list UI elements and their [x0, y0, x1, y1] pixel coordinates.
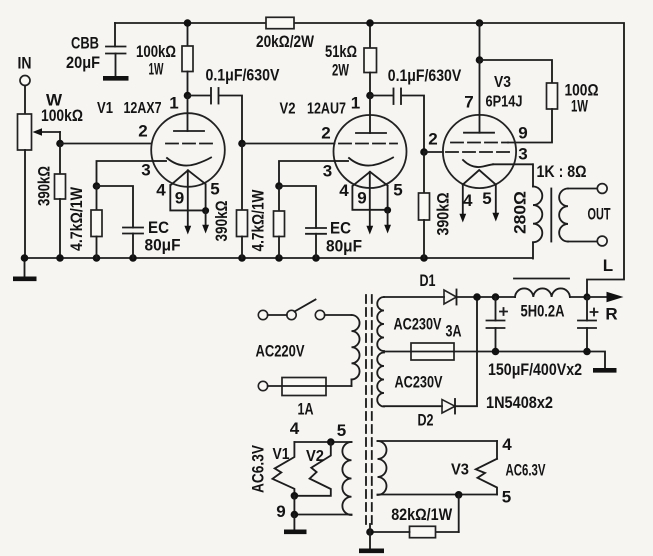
V2 heater [353, 172, 388, 186]
node heater pin5 tap [327, 438, 335, 446]
svg-text:V1: V1 [273, 446, 290, 463]
svg-text:D1: D1 [420, 271, 436, 290]
resistor 4.7kOhm/1W (V2 cathode) [249, 186, 285, 258]
svg-text:EC: EC [148, 218, 169, 237]
node V1 pin5 junction [202, 207, 209, 214]
svg-text:AC6.3V: AC6.3V [506, 461, 546, 480]
ground (heater) [284, 515, 307, 532]
capacitor EC 80uF (V2 cathode) [279, 186, 362, 258]
vacuum tube V2 12AU7 [280, 101, 407, 189]
svg-text:5: 5 [337, 421, 346, 440]
inductor choke 5H0.2A [515, 288, 587, 320]
V3 heater lead arrow (pin 5) [492, 185, 499, 222]
pin labels V3 [428, 93, 527, 211]
svg-text:6P14J: 6P14J [486, 94, 523, 111]
capacitor 0.1uF/630V (V1-V2 coupling) [188, 66, 281, 144]
node rectifier output [473, 293, 499, 301]
pin labels V1 [138, 94, 219, 208]
svg-text:1K : 8Ω: 1K : 8Ω [537, 162, 587, 181]
transformer T1 heater winding V1 V2 (AC6.3V) [294, 442, 351, 515]
svg-text:280Ω: 280Ω [511, 191, 530, 234]
label AC220V [256, 342, 305, 361]
node V1 cathode junction [93, 182, 101, 190]
V1 plate [174, 96, 204, 132]
resistor 390kOhm (input) [35, 144, 66, 259]
resistor 4.7kOhm/1W (V1 cathode) [67, 186, 102, 258]
capacitor 150uF right [578, 297, 598, 352]
svg-text:390kΩ: 390kΩ [35, 166, 54, 206]
heater V1 (zigzag) [273, 442, 295, 496]
svg-text:CBB: CBB [71, 34, 99, 53]
transformer T1 secondary AC230V upper [377, 297, 442, 351]
svg-text:100kΩ: 100kΩ [136, 42, 176, 61]
fuse 3A (center tap) [384, 322, 496, 361]
svg-text:3: 3 [323, 162, 332, 181]
svg-text:390kΩ: 390kΩ [434, 193, 453, 236]
svg-text:5H0.2A: 5H0.2A [521, 302, 565, 321]
svg-text:4: 4 [156, 181, 166, 200]
labels heater V3 [451, 435, 546, 507]
resistor 51kOhm 2W (V2 plate) [325, 23, 377, 96]
node heater bottom junction [291, 492, 299, 500]
label 1K:8Ohm [537, 162, 587, 181]
svg-text:4: 4 [339, 181, 349, 200]
svg-text:3: 3 [141, 161, 150, 180]
wire ground rail [25, 257, 533, 259]
node V2 cathode junction [275, 182, 283, 190]
V2 heater lead arrow (pin 5) [384, 210, 391, 233]
wire B+ top rail [115, 23, 624, 297]
svg-text:5: 5 [393, 181, 402, 200]
svg-text:IN: IN [18, 54, 32, 73]
svg-text:5: 5 [502, 488, 511, 507]
label 150uF/400Vx2 [488, 360, 582, 379]
wire to V1 grid [60, 143, 152, 145]
wire heater V3 bottom [378, 494, 498, 496]
node heater V3 junction [455, 491, 463, 499]
svg-text:D2: D2 [418, 411, 434, 430]
svg-text:12AX7: 12AX7 [124, 100, 162, 117]
svg-text:OUT: OUT [588, 205, 611, 224]
label OUT [588, 205, 611, 224]
node wiper junction [56, 140, 64, 148]
switch S1 [258, 300, 324, 320]
svg-text:L: L [603, 256, 613, 275]
svg-text:7: 7 [464, 93, 473, 112]
pin labels V2 [321, 94, 402, 208]
ground (main, bottom-left) [13, 258, 37, 279]
svg-text:1: 1 [351, 94, 360, 113]
ground (power supply) [593, 368, 617, 373]
V3 heater [463, 170, 496, 185]
svg-text:1N5408x2: 1N5408x2 [486, 393, 553, 412]
node V3 grid junction [420, 148, 428, 156]
wire switch to transformer primary [325, 314, 352, 316]
svg-text:V2: V2 [280, 101, 296, 118]
capacitor CBB 20uF [106, 23, 126, 76]
vacuum tube V3 6P14J [443, 74, 523, 188]
svg-text:150μF/400Vx2: 150μF/400Vx2 [488, 360, 582, 379]
svg-text:V3: V3 [451, 462, 469, 479]
diode D2 [384, 399, 455, 430]
capacitor 150uF left [487, 297, 508, 352]
node V2 plate junction [366, 19, 374, 99]
resistor 82kOhm/1W [370, 495, 459, 538]
resistor 390kOhm (V2 grid) [212, 144, 248, 259]
V1 pin 4-5 strap box [170, 185, 205, 211]
wire V2 cathode to network [279, 161, 335, 186]
svg-text:4: 4 [502, 435, 512, 454]
svg-text:4: 4 [463, 191, 473, 210]
V1 cathode [153, 158, 211, 166]
svg-text:V3: V3 [494, 74, 511, 91]
svg-text:5: 5 [482, 189, 491, 208]
transformer T1 secondary AC230V lower [377, 353, 443, 407]
capacitor 0.1uF/630V (V2-V3 coupling) [370, 66, 462, 152]
V2 cathode [335, 158, 393, 166]
potentiometer W 100kOhm [18, 91, 84, 151]
diode D1 [384, 271, 457, 305]
heater V2 (zigzag) [294, 442, 330, 496]
node B+ out [583, 293, 590, 300]
svg-text:9: 9 [357, 189, 366, 208]
V1 heater lead arrow (pin 5) [202, 211, 209, 234]
node V2 grid junction [238, 140, 246, 148]
svg-text:2: 2 [428, 130, 437, 149]
svg-text:4.7kΩ/1W: 4.7kΩ/1W [67, 186, 86, 251]
svg-text:4: 4 [290, 419, 300, 438]
resistor 100Ohm 1W (V3 screen) [480, 60, 599, 143]
fuse 1A [258, 378, 351, 419]
wire D1 cathode to B+ node [457, 296, 516, 298]
svg-text:R: R [605, 305, 617, 324]
svg-text:AC220V: AC220V [256, 342, 305, 361]
svg-text:80μF: 80μF [326, 237, 362, 256]
node core ground junction [366, 528, 374, 536]
transformer T2 secondary [559, 189, 597, 242]
svg-text:1: 1 [169, 94, 178, 113]
terminal OUT top [597, 184, 607, 194]
svg-text:2: 2 [321, 124, 330, 143]
V2 pin 4-5 strap box [352, 186, 387, 210]
ground (CBB) [103, 76, 129, 81]
resistor 100kOhm 1W (V1 plate) [136, 23, 193, 96]
transformer T1 heater winding V3 (AC6.3V) [378, 441, 498, 495]
wire segment above choke [514, 278, 569, 280]
terminal R arrow [587, 292, 624, 324]
op-amp? no: vacuum tube V1 12AX7 [97, 100, 225, 187]
svg-text:80μF: 80μF [145, 236, 181, 255]
V1 heater [172, 170, 206, 184]
svg-text:AC230V: AC230V [394, 315, 442, 334]
terminal IN [18, 54, 32, 115]
V2 plate [356, 96, 386, 134]
heater V3 (zigzag) [476, 459, 497, 495]
terminal OUT bottom [597, 236, 607, 246]
transformer T2 core [550, 189, 552, 242]
node common junctions [492, 348, 591, 356]
svg-text:V2: V2 [306, 448, 324, 465]
svg-text:2: 2 [138, 122, 147, 141]
V3 cathode [463, 160, 533, 167]
node rail junctions [21, 254, 428, 262]
resistor 390kOhm (V3 grid) [419, 152, 453, 258]
V1 grid (dashed) [166, 143, 214, 145]
svg-text:20kΩ/2W: 20kΩ/2W [256, 32, 315, 51]
svg-text:100kΩ: 100kΩ [41, 106, 83, 125]
svg-text:2W: 2W [332, 61, 350, 80]
svg-text:12AU7: 12AU7 [307, 101, 346, 118]
V3 screen grid (dashed, pin 9) [451, 142, 508, 144]
wire power common [496, 352, 606, 369]
svg-text:3A: 3A [446, 322, 462, 341]
svg-text:9: 9 [175, 189, 184, 208]
label 1N5408x2 [486, 393, 553, 412]
wire pot bottom to ground rail [24, 150, 26, 258]
svg-text:4.7kΩ/1W: 4.7kΩ/1W [249, 189, 268, 252]
svg-text:1W: 1W [571, 97, 589, 116]
resistor 20kOhm/2W [256, 17, 315, 51]
wire pin9 line [291, 496, 299, 519]
V2 heater lead arrow (pin 9) [366, 172, 373, 235]
svg-text:5: 5 [210, 180, 219, 199]
wire to V3 grid [424, 151, 443, 153]
ground (transformer core) [359, 524, 384, 551]
svg-text:1A: 1A [298, 400, 314, 419]
V3 heater lead arrow (pin 4) [459, 185, 466, 223]
labels heater V1 V2 [249, 419, 347, 521]
transformer T1 primary winding [352, 315, 360, 386]
svg-text:51kΩ: 51kΩ [325, 42, 357, 61]
svg-text:0.1μF/630V: 0.1μF/630V [388, 66, 462, 85]
svg-text:1W: 1W [149, 60, 165, 79]
V3 control grid (dashed, pin 2) [446, 151, 510, 153]
V2 grid (dashed) [339, 143, 397, 145]
svg-text:390kΩ: 390kΩ [212, 201, 231, 242]
svg-text:EC: EC [330, 219, 351, 238]
V1 heater lead arrow (pin 9) [184, 170, 191, 234]
V3 plate [464, 60, 494, 133]
wire to V2 grid [242, 143, 335, 145]
label CBB 20uF [66, 34, 100, 73]
node L label [603, 256, 613, 275]
transformer T1 core (dashed) [366, 295, 372, 524]
svg-text:AC230V: AC230V [395, 373, 443, 392]
node V3 plate junction [476, 19, 484, 64]
wire V1 cathode to network [97, 161, 153, 186]
svg-text:0.1μF/630V: 0.1μF/630V [206, 66, 281, 85]
transformer T2 output 1K:8 primary 280Ohm [511, 164, 543, 258]
node V1 plate junction [184, 19, 192, 99]
svg-text:9: 9 [276, 502, 285, 521]
svg-text:9: 9 [518, 124, 527, 143]
wire D2 cathode up to D1 cathode [455, 297, 477, 406]
node V2 pin5 junction [384, 207, 391, 214]
svg-text:V1: V1 [97, 100, 113, 117]
svg-text:20μF: 20μF [66, 53, 100, 72]
svg-text:AC6.3V: AC6.3V [249, 444, 268, 493]
svg-text:82kΩ/1W: 82kΩ/1W [391, 505, 453, 524]
capacitor EC 80uF (V1 cathode) [97, 186, 181, 258]
svg-text:3: 3 [518, 145, 527, 164]
